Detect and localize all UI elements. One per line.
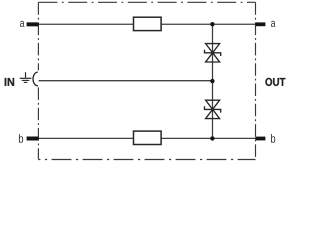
node junction dot middle [210,79,214,83]
wire diode branch vertical [212,24,214,138]
label OUT [265,78,285,86]
enclosure border left [37,2,39,159]
label a right [271,21,276,27]
coax connector socket arc at IN [33,72,38,86]
node junction dot bottom [210,136,214,140]
wire top line right [161,23,255,25]
resistor R2 (bottom series decoupling resistor) [134,131,162,144]
wire middle line [39,80,213,82]
label b right [271,134,275,143]
terminal a right (clamp bar) [255,22,265,26]
enclosure border bottom [38,159,255,161]
label b left [19,134,23,143]
earth ground symbol at IN [20,72,32,82]
node junction dot top [210,22,214,26]
suppressor diode V2 (bidirectional TVS, bottom) [205,100,221,118]
suppressor diode V1 (bidirectional TVS, top) [205,44,221,62]
wire bottom line right [161,137,255,139]
wire top line left [29,23,134,25]
label IN [5,78,14,86]
resistor R1 (top series decoupling resistor) [134,17,162,30]
terminal b right (clamp bar) [255,137,265,141]
enclosure border top [38,1,255,3]
terminal a left (clamp bar) [27,22,39,26]
terminal b left (clamp bar) [27,137,39,141]
wire bottom line left [29,137,134,139]
enclosure border right [255,2,257,159]
label a left [20,21,25,27]
